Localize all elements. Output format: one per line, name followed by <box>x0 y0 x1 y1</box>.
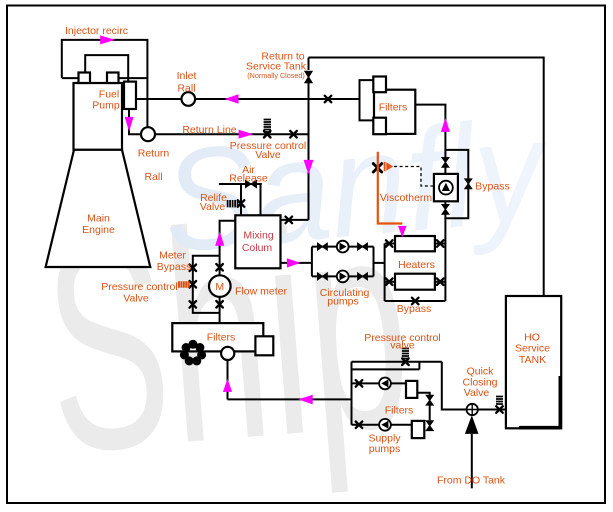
svg-text:Injector recirc: Injector recirc <box>65 25 128 37</box>
svg-text:pumps: pumps <box>327 296 359 308</box>
svg-text:TANK: TANK <box>519 354 546 366</box>
svg-text:Flow meter: Flow meter <box>235 286 287 298</box>
svg-text:From DO Tank: From DO Tank <box>437 475 506 487</box>
svg-text:Service: Service <box>515 343 550 355</box>
svg-text:Filters: Filters <box>379 102 408 114</box>
svg-text:Bypass: Bypass <box>157 261 191 273</box>
svg-text:M: M <box>215 281 224 293</box>
svg-text:Valve: Valve <box>200 201 226 213</box>
svg-text:Heaters: Heaters <box>398 259 435 271</box>
svg-text:Release: Release <box>229 173 268 185</box>
svg-text:Main: Main <box>87 213 110 225</box>
svg-text:valve: valve <box>390 340 415 352</box>
svg-text:Viscotherm: Viscotherm <box>380 192 433 204</box>
svg-text:pumps: pumps <box>369 443 401 455</box>
svg-text:Valve: Valve <box>464 387 490 399</box>
svg-text:Pressure control: Pressure control <box>101 281 177 293</box>
svg-text:Return: Return <box>138 148 170 160</box>
svg-text:Rall: Rall <box>177 83 195 95</box>
svg-text:(Normally Closed): (Normally Closed) <box>247 71 305 80</box>
svg-text:Return Line: Return Line <box>182 124 236 136</box>
svg-text:Rall: Rall <box>144 171 162 183</box>
svg-text:Meter: Meter <box>159 250 186 262</box>
svg-text:Engine: Engine <box>82 224 115 236</box>
svg-text:Valve: Valve <box>123 293 149 305</box>
svg-text:Colum: Colum <box>242 242 273 254</box>
svg-text:Filters: Filters <box>207 332 236 344</box>
svg-text:Bypass: Bypass <box>397 303 431 315</box>
svg-text:Bypass: Bypass <box>475 181 509 193</box>
svg-text:Mixing: Mixing <box>243 230 274 242</box>
svg-text:Valve: Valve <box>255 149 281 161</box>
svg-text:Filters: Filters <box>385 405 414 417</box>
svg-text:Inlet: Inlet <box>177 70 197 82</box>
svg-text:Pump: Pump <box>92 100 120 112</box>
